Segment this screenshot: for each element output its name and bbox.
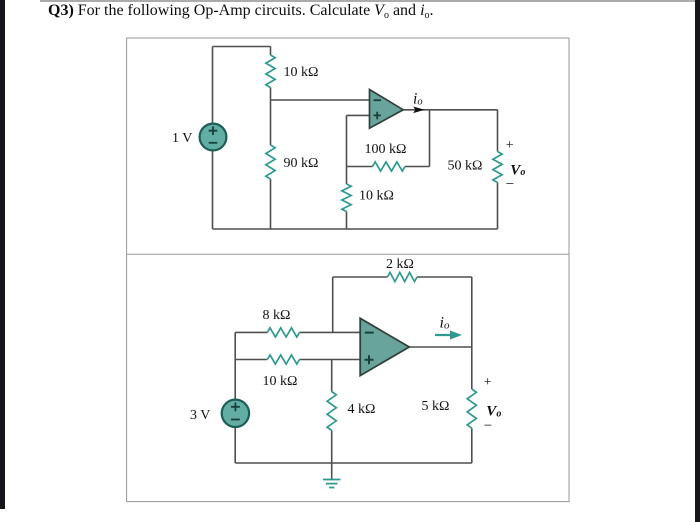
op-amp U1: [370, 90, 404, 129]
wire: 50k stubs: [497, 110, 499, 229]
source V2 minus sign: [231, 419, 240, 421]
svg-text:io: io: [440, 315, 450, 332]
source V1 1V circle: [200, 124, 227, 151]
resistor R6 2k zigzag: [388, 272, 418, 281]
svg-text:10 kΩ: 10 kΩ: [284, 65, 319, 80]
svg-text:10 kΩ: 10 kΩ: [263, 374, 298, 389]
svg-text:4 kΩ: 4 kΩ: [348, 402, 376, 417]
arrow io c2: [435, 334, 452, 336]
resistor R10 5k zigzag: [467, 389, 476, 428]
left photo edge bar: [0, 0, 5, 509]
ground bars: [323, 480, 341, 488]
wire: R2 stubs: [270, 100, 272, 229]
ground stem: [331, 463, 333, 479]
svg-text:+: +: [506, 138, 514, 153]
wire: top rail c1: [213, 46, 271, 48]
resistor R2 90k zigzag: [266, 145, 275, 179]
svg-text:5 kΩ: 5 kΩ: [422, 399, 450, 414]
wire: feedback left vertical c2: [332, 277, 334, 332]
wire: R1 stubs: [270, 47, 272, 101]
wire: op-amp2 output: [409, 346, 472, 348]
source V1 plus sign: [209, 126, 218, 135]
resistor R3 100k zigzag: [373, 162, 406, 171]
op-amp U2 minus sign: [365, 332, 374, 334]
wire: bottom rail c1: [213, 228, 498, 230]
source V2 3V circle: [222, 400, 249, 427]
wire: feedback vertical: [429, 110, 431, 167]
wire: node A horizontal to inverting input: [271, 99, 370, 101]
wire: op-amp output: [403, 109, 497, 111]
svg-text:+: +: [484, 375, 492, 390]
wire: noninverting input wire: [347, 114, 370, 116]
resistor R4 10k zigzag: [342, 184, 351, 212]
svg-text:8 kΩ: 8 kΩ: [263, 308, 291, 323]
arrowhead io c1: [413, 107, 424, 114]
top photo edge line: [40, 0, 695, 2]
svg-text:50 kΩ: 50 kΩ: [448, 159, 483, 174]
source V2 plus sign: [231, 402, 240, 411]
wire: right vertical c2: [471, 277, 473, 463]
svg-text:1 V: 1 V: [172, 131, 192, 146]
op-amp U2: [360, 318, 409, 375]
wire: inverting row c2: [235, 331, 360, 333]
wire: R3 horizontal stubs: [347, 166, 430, 168]
svg-text:90 kΩ: 90 kΩ: [284, 156, 319, 171]
wire: left branch upper: [212, 47, 214, 124]
wire: feedback top rail c2: [333, 276, 472, 278]
svg-text:100 kΩ: 100 kΩ: [365, 142, 407, 157]
svg-text:io: io: [413, 91, 423, 108]
op-amp U1 plus sign: [374, 112, 382, 120]
wire: left branch c2: [234, 332, 236, 463]
resistor R1 10k zigzag: [266, 55, 275, 88]
wire: 4k branch stubs: [331, 360, 333, 464]
resistor R8 10k zigzag: [267, 355, 299, 364]
wire: bottom rail c2: [235, 462, 472, 464]
frame divider line: [127, 253, 569, 255]
source V1 minus sign: [209, 142, 218, 144]
svg-text:3 V: 3 V: [190, 408, 210, 423]
wire: left branch lower: [212, 150, 214, 229]
svg-text:10 kΩ: 10 kΩ: [359, 189, 394, 204]
op-amp U1 minus sign: [374, 99, 382, 101]
resistor R7 8k zigzag: [267, 328, 299, 337]
right photo edge bar: [695, 0, 700, 522]
svg-text:2 kΩ: 2 kΩ: [386, 257, 414, 272]
resistor R9 4k zigzag: [327, 392, 336, 431]
figure frame box: [127, 38, 569, 502]
op-amp U2 plus sign: [365, 355, 374, 364]
wire: middle vertical branch: [346, 115, 348, 229]
wire: noninverting row c2: [235, 359, 360, 361]
svg-text:−: −: [484, 418, 492, 434]
title: [48, 2, 434, 20]
resistor R5 50k zigzag: [493, 152, 502, 183]
svg-text:−: −: [506, 177, 514, 193]
